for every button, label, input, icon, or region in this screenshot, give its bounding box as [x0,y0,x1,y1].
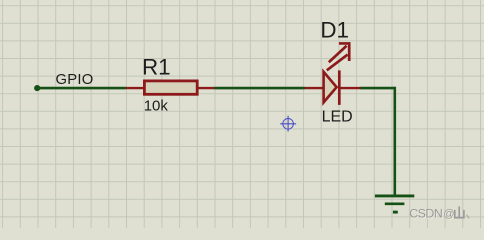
origin marker (blue target) [280,116,296,132]
ground symbol [375,196,414,212]
resistor R1 reference label [142,54,171,79]
watermark glyph shan [455,206,464,217]
LED D1 light arrow head (corner polyline) [339,43,349,61]
LED D1 light arrow 1 (upper): shaft [329,46,347,63]
watermark small tick mark [467,215,470,219]
svg-text:10k: 10k [144,98,169,115]
wire W2: R1 pin 2 to D1 anode [215,87,306,90]
LED D1 reference label D1 [320,17,349,42]
svg-text:@: @ [443,208,454,220]
net label GPIO [56,72,94,88]
LED D1 value label LED [322,109,353,126]
resistor R1 body [144,81,197,94]
LED D1 pin K (cathode) [341,87,361,89]
svg-text:CSDN: CSDN [409,207,442,221]
watermark text CSDN [409,207,443,222]
wire W3: D1 cathode to corner (horizontal) [361,87,395,90]
svg-text:LED: LED [322,109,353,126]
wire W4: corner down to ground (vertical) [393,87,396,196]
LED D1 body: cathode bar [338,70,341,105]
node GPIO (terminal dot) [34,85,40,91]
LED D1 body: anode triangle [324,72,337,103]
resistor R1 value label 10k [144,98,169,115]
watermark text at-sign [443,208,455,221]
wire W1: GPIO node to R1 pin 1 [37,87,126,90]
resistor R1 pin 1 [126,87,144,89]
LED D1 light arrow 2 (lower): shaft [327,55,348,71]
svg-text:R1: R1 [142,54,171,79]
LED D1 pin A (anode) [305,87,323,89]
svg-text:GPIO: GPIO [56,72,94,88]
svg-text:D1: D1 [320,17,349,42]
resistor R1 pin 2 [198,87,214,89]
